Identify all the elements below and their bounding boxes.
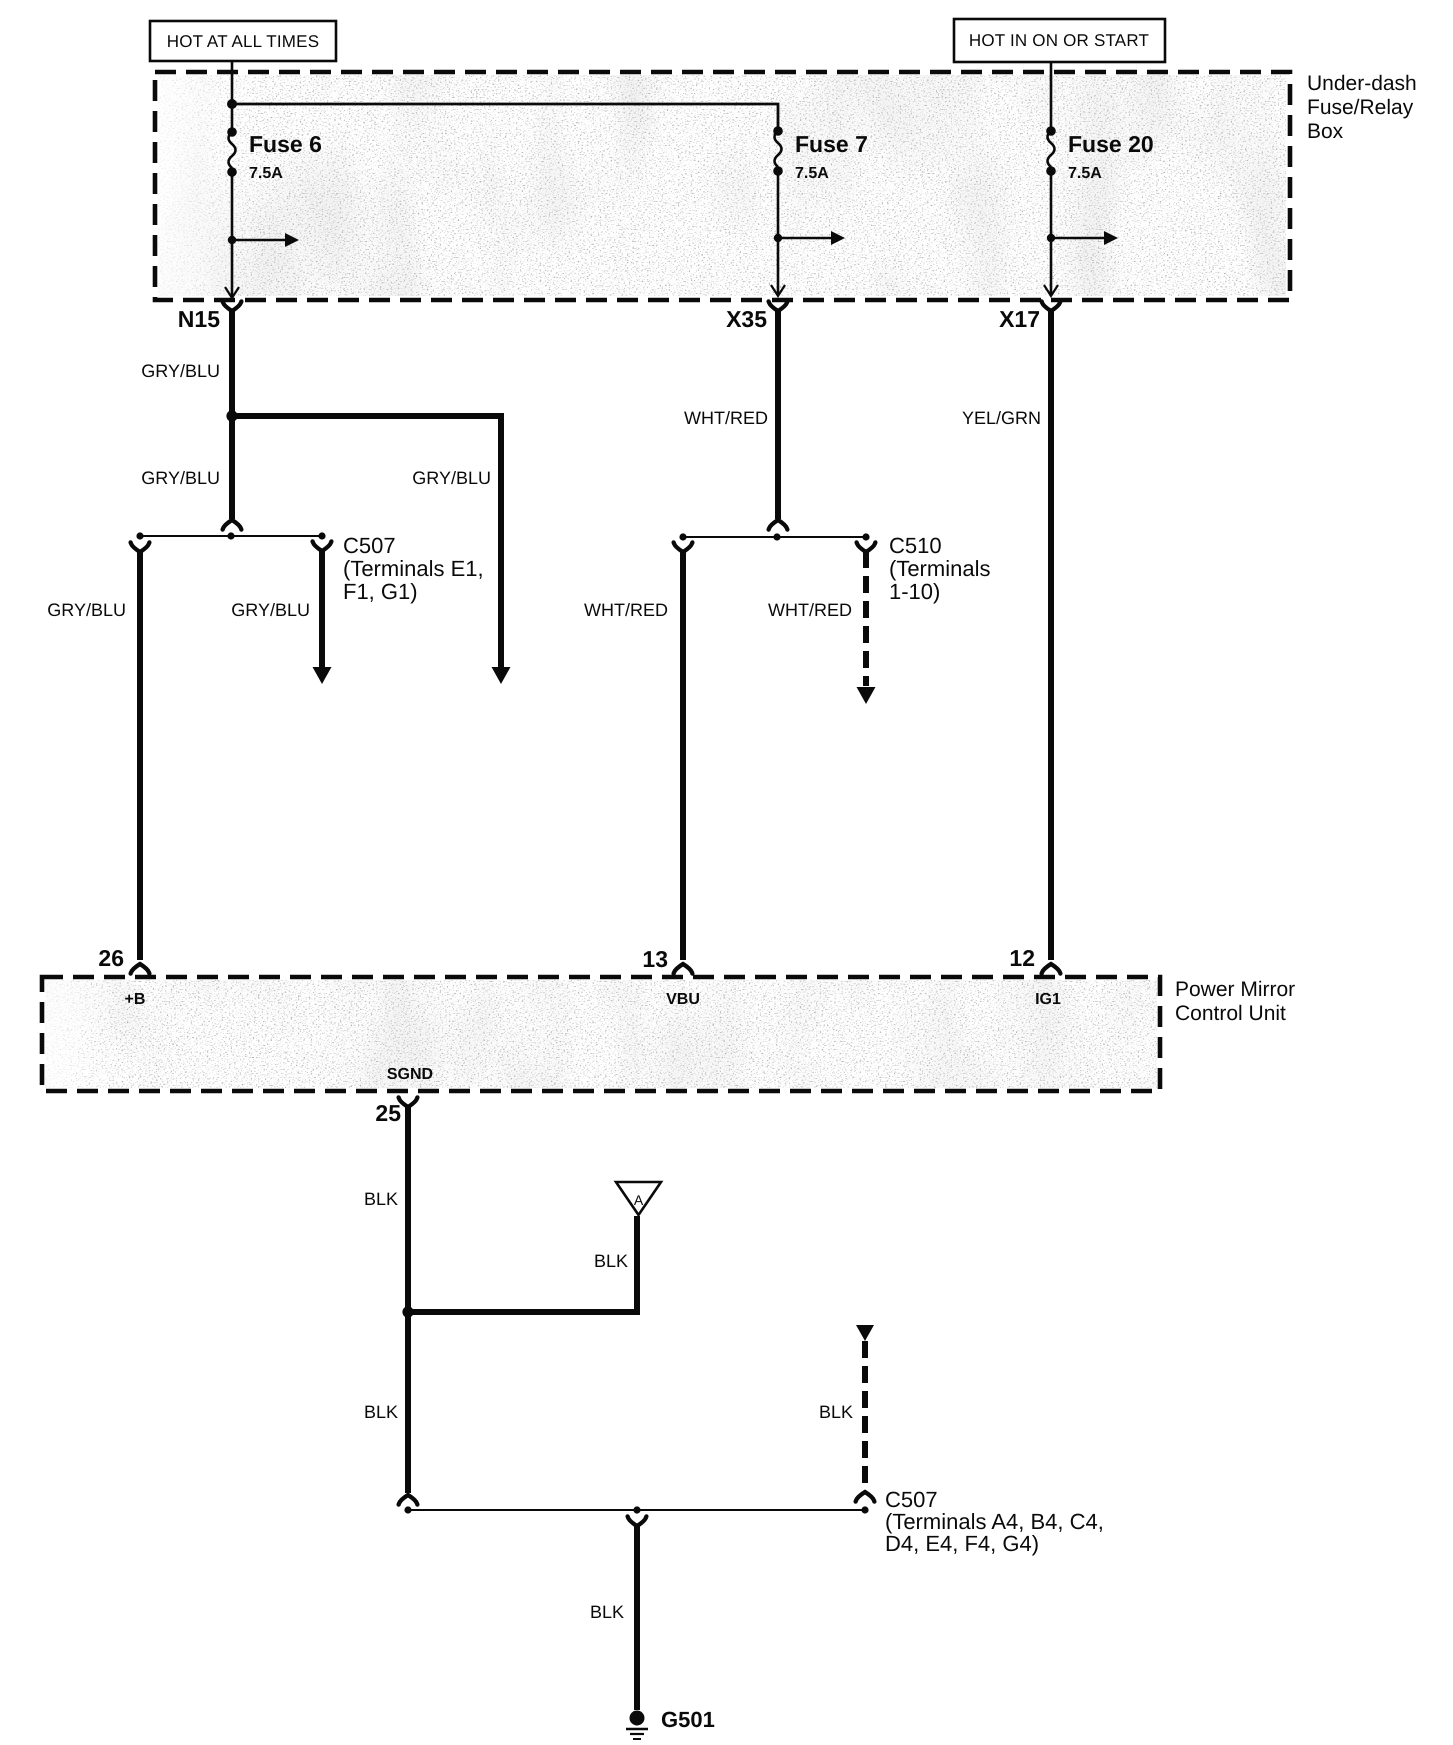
svg-text:VBU: VBU [666, 991, 700, 1008]
svg-text:(Terminals: (Terminals [889, 556, 990, 581]
svg-text:SGND: SGND [387, 1066, 433, 1083]
svg-text:7.5A: 7.5A [795, 165, 829, 182]
svg-text:Under-dash: Under-dash [1307, 72, 1417, 95]
svg-text:BLK: BLK [364, 1189, 398, 1209]
svg-text:Control Unit: Control Unit [1175, 1002, 1286, 1025]
svg-text:Fuse 6: Fuse 6 [249, 131, 322, 157]
svg-text:C507: C507 [343, 533, 396, 558]
svg-text:WHT/RED: WHT/RED [768, 600, 852, 620]
svg-text:N15: N15 [178, 306, 220, 332]
svg-text:C510: C510 [889, 533, 942, 558]
svg-text:GRY/BLU: GRY/BLU [231, 600, 310, 620]
svg-text:D4, E4, F4, G4): D4, E4, F4, G4) [885, 1531, 1039, 1556]
svg-text:HOT IN ON OR START: HOT IN ON OR START [969, 31, 1149, 50]
svg-text:YEL/GRN: YEL/GRN [962, 408, 1041, 428]
svg-text:F1, G1): F1, G1) [343, 579, 418, 604]
svg-text:X35: X35 [726, 306, 767, 332]
svg-text:13: 13 [642, 946, 668, 972]
svg-text:Fuse 20: Fuse 20 [1068, 131, 1154, 157]
svg-text:+B: +B [125, 991, 146, 1008]
svg-text:WHT/RED: WHT/RED [684, 408, 768, 428]
svg-text:BLK: BLK [364, 1402, 398, 1422]
svg-text:Power Mirror: Power Mirror [1175, 978, 1295, 1001]
svg-text:X17: X17 [999, 306, 1040, 332]
svg-text:BLK: BLK [819, 1402, 853, 1422]
svg-text:HOT AT ALL TIMES: HOT AT ALL TIMES [167, 32, 319, 51]
svg-text:Fuse/Relay: Fuse/Relay [1307, 96, 1414, 119]
svg-text:A: A [634, 1192, 644, 1208]
svg-text:7.5A: 7.5A [249, 165, 283, 182]
svg-text:GRY/BLU: GRY/BLU [141, 468, 220, 488]
svg-text:26: 26 [98, 945, 124, 971]
svg-text:7.5A: 7.5A [1068, 165, 1102, 182]
svg-text:G501: G501 [661, 1707, 715, 1732]
svg-text:12: 12 [1009, 945, 1035, 971]
svg-text:BLK: BLK [594, 1251, 628, 1271]
svg-text:GRY/BLU: GRY/BLU [141, 361, 220, 381]
svg-text:1-10): 1-10) [889, 579, 940, 604]
svg-text:Box: Box [1307, 120, 1344, 143]
svg-text:GRY/BLU: GRY/BLU [412, 468, 491, 488]
svg-text:WHT/RED: WHT/RED [584, 600, 668, 620]
svg-text:BLK: BLK [590, 1602, 624, 1622]
svg-text:Fuse 7: Fuse 7 [795, 131, 868, 157]
svg-text:25: 25 [375, 1100, 401, 1126]
svg-text:(Terminals E1,: (Terminals E1, [343, 556, 484, 581]
svg-text:GRY/BLU: GRY/BLU [47, 600, 126, 620]
svg-text:IG1: IG1 [1035, 991, 1061, 1008]
